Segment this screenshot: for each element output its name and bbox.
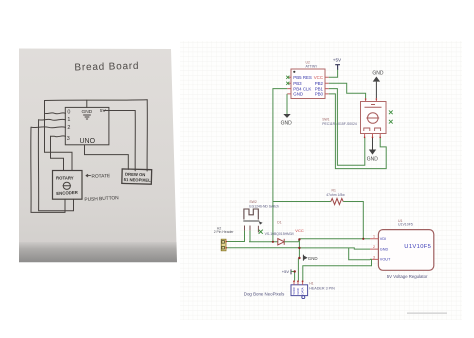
wire R1 row left <box>273 201 331 203</box>
wire vert C + bottom L to encoder <box>31 127 65 212</box>
wire R1 row right, down to VDI row <box>343 202 363 239</box>
wire vert A <box>44 101 46 153</box>
junction ground flag <box>298 257 300 259</box>
svg-text:5V Voltage Regulator: 5V Voltage Regulator <box>387 274 428 279</box>
H1 pin top marks <box>293 280 295 282</box>
diode D1 symbol <box>278 239 284 245</box>
wire ground row branch to VOUT pin3 <box>349 248 370 260</box>
svg-text:GND: GND <box>380 247 389 251</box>
regulator pin numbers <box>373 235 375 260</box>
wire diode to VCC node <box>284 239 299 241</box>
UNO pin labels 0 1 2 3 <box>67 109 71 142</box>
title Bread Board <box>74 61 139 74</box>
wire SW2 pin2 down to diode row <box>249 231 251 242</box>
SW1 pin nubs <box>365 98 367 100</box>
wire +5V flag to H1 pin1 <box>291 272 295 281</box>
no-connect X on PB3 <box>286 82 289 85</box>
svg-text:0: 0 <box>67 109 70 115</box>
ground below SW1 <box>372 138 374 150</box>
rotary encoder box <box>53 171 83 200</box>
wire H2 pin2 ground row <box>226 247 299 249</box>
stray scrollbar line <box>407 312 447 314</box>
wire pin2 lead <box>31 127 66 128</box>
svg-text:Dog Bone NeoPixels: Dog Bone NeoPixels <box>244 291 285 296</box>
wire GND vertical to H1 pin2 <box>298 239 299 280</box>
svg-text:GND: GND <box>296 288 300 294</box>
svg-text:U1V10F5: U1V10F5 <box>404 244 431 250</box>
ground arrow right <box>302 255 304 261</box>
svg-text:EG1246-ND Switch: EG1246-ND Switch <box>249 204 279 208</box>
svg-text:Bread Board: Bread Board <box>74 61 139 74</box>
switch SW2 slider line + arrow <box>243 220 259 222</box>
svg-text:+5V: +5V <box>333 57 342 62</box>
svg-text:H1: H1 <box>309 281 313 285</box>
junction VCC node <box>298 238 300 240</box>
svg-text:2: 2 <box>67 125 70 131</box>
regulator pin names <box>380 237 391 262</box>
switch SW2 body <box>244 209 258 220</box>
svg-text:DATA: DATA <box>301 287 305 294</box>
wire PB1 to SW1 pin A <box>329 89 365 166</box>
header H2 body <box>221 239 226 251</box>
svg-text:VDI: VDI <box>380 237 386 241</box>
encoder SW1 body <box>361 102 387 134</box>
wire diode row left <box>249 241 278 243</box>
wire vert B + bottom L to encoder <box>38 120 73 211</box>
svg-text:ROTATE: ROTATE <box>91 173 110 180</box>
neopixel box <box>122 169 152 184</box>
paper background <box>19 49 177 246</box>
svg-text:HEADER 3 PIN: HEADER 3 PIN <box>309 287 335 291</box>
ROTATE note <box>86 174 91 176</box>
wire ground row to GND pin2 <box>299 248 370 249</box>
svg-text:D1: D1 <box>277 220 281 224</box>
svg-text:PEC11R-4015F-S0024: PEC11R-4015F-S0024 <box>322 122 357 126</box>
header H1 body <box>291 285 308 296</box>
svg-text:+5V: +5V <box>282 269 290 274</box>
wire 5V to neopixel box <box>104 111 135 171</box>
wire pin3 to encoder top pin <box>51 136 64 170</box>
right pin names <box>314 75 324 97</box>
svg-text:VS-10BQ015HM3/I: VS-10BQ015HM3/I <box>265 232 294 236</box>
wire pin3 lead <box>51 135 66 138</box>
junction ground row <box>298 247 300 249</box>
svg-text:1: 1 <box>67 117 70 123</box>
SW1 top pin stubs <box>366 98 377 101</box>
svg-text:PB2: PB2 <box>315 81 324 86</box>
svg-text:PB1: PB1 <box>315 86 324 91</box>
svg-text:GND: GND <box>372 71 384 77</box>
left pin names <box>293 75 312 97</box>
wire H2 pin1 to SW2 <box>226 231 244 242</box>
svg-text:UNO: UNO <box>80 138 96 145</box>
paper bottom shadow band <box>19 242 177 262</box>
svg-text:GND: GND <box>367 157 379 163</box>
ground below chip <box>286 94 288 114</box>
svg-text:3: 3 <box>373 255 375 259</box>
IC U2 ATTINY body <box>291 69 325 99</box>
wire VOUT loop to H1 pin3 <box>303 259 372 280</box>
chip pin stubs right <box>325 77 329 94</box>
wire pin0 lead <box>45 113 66 114</box>
svg-text:PB5 RES: PB5 RES <box>293 75 312 80</box>
svg-text:ATTINY: ATTINY <box>306 65 319 69</box>
pin 1 indicator dot <box>293 71 295 73</box>
wire PB2 to SW1 switch pin S1 <box>329 83 366 98</box>
junction +5V flag <box>294 270 296 272</box>
schematic grid background <box>180 41 462 320</box>
svg-text:2: 2 <box>373 245 375 249</box>
wire VCC to +5V <box>329 70 338 78</box>
SW2 contact pins <box>245 226 259 233</box>
H1 pin stubs <box>294 281 303 285</box>
SW1 bottom pin stubs <box>365 134 381 139</box>
junction R1 to VDI row <box>362 238 364 240</box>
wire VCC node to VDI pin1 <box>299 238 370 240</box>
H2 pin nubs <box>225 241 227 243</box>
top rail wire <box>45 99 148 102</box>
wire UNO data to neopixel box <box>85 145 129 169</box>
no-connect X right of SW1 <box>389 110 393 114</box>
no-connect X left of D1 value <box>259 230 263 234</box>
encoder internal knob <box>368 113 379 124</box>
H1 pin name texts vertical <box>292 287 305 294</box>
svg-text:GND: GND <box>308 256 318 261</box>
svg-text:R1: R1 <box>332 188 336 192</box>
svg-text:ROTARY: ROTARY <box>56 176 74 181</box>
wire GND to rail <box>86 100 88 107</box>
svg-text:VCC: VCC <box>314 75 323 80</box>
svg-text:GND: GND <box>293 92 303 97</box>
regulator pin stubs <box>370 239 378 260</box>
UNO box <box>65 107 109 144</box>
wire PB0 to SW1 pin B <box>329 94 386 169</box>
encoder knob circle <box>63 182 70 189</box>
wire PB4 CLK long vertical <box>273 89 287 242</box>
svg-text:GND: GND <box>82 109 93 115</box>
chip pin stubs left <box>287 77 291 94</box>
wire pin1 lead <box>39 119 66 120</box>
svg-text:PB3: PB3 <box>293 81 302 86</box>
wire encoder pin2 up-left <box>45 152 73 170</box>
svg-text:VCC: VCC <box>295 228 304 233</box>
wire rail right drop to neopixel box <box>146 100 148 171</box>
no-connect X on PB5 <box>286 76 289 79</box>
svg-text:GND: GND <box>281 120 293 126</box>
encoder internal bottom contacts <box>364 128 381 131</box>
svg-text:3: 3 <box>67 136 70 142</box>
svg-text:51 NEOPIXEL: 51 NEOPIXEL <box>124 177 152 183</box>
H1 mounting circle <box>302 296 305 299</box>
junction diode row / CLK <box>272 241 274 243</box>
svg-text:U1V10F5: U1V10F5 <box>398 223 413 227</box>
svg-text:PB0: PB0 <box>315 92 324 97</box>
svg-text:2 Pin Header: 2 Pin Header <box>214 230 235 234</box>
encoder internal top bar <box>365 105 382 108</box>
svg-text:VOUT: VOUT <box>380 258 391 262</box>
svg-text:47ohm 1/8w: 47ohm 1/8w <box>326 193 345 197</box>
svg-text:1: 1 <box>373 235 375 239</box>
resistor R1 zigzag <box>331 198 343 204</box>
regulator U1 body <box>378 230 433 271</box>
svg-text:PB4 CLK: PB4 CLK <box>293 86 311 91</box>
svg-text:SW1: SW1 <box>322 117 329 121</box>
